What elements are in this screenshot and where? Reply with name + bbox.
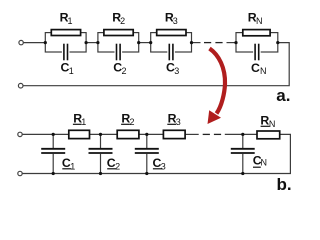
svg-text:N: N [260,66,267,76]
svg-text:2: 2 [122,66,127,76]
svg-text:2: 2 [120,16,125,26]
svg-text:3: 3 [176,117,181,127]
svg-text:N: N [256,16,263,26]
svg-text:C: C [251,61,260,75]
svg-text:a.: a. [276,86,290,105]
svg-text:1: 1 [69,66,74,76]
svg-text:2: 2 [115,162,120,172]
svg-text:3: 3 [161,162,166,172]
svg-text:b.: b. [277,175,292,194]
svg-text:2: 2 [130,117,135,127]
svg-text:1: 1 [81,117,86,127]
svg-text:1: 1 [70,162,75,172]
svg-text:3: 3 [173,16,178,26]
svg-text:N: N [269,119,276,129]
svg-text:N: N [261,157,268,167]
svg-text:3: 3 [174,66,179,76]
svg-text:1: 1 [68,16,73,26]
